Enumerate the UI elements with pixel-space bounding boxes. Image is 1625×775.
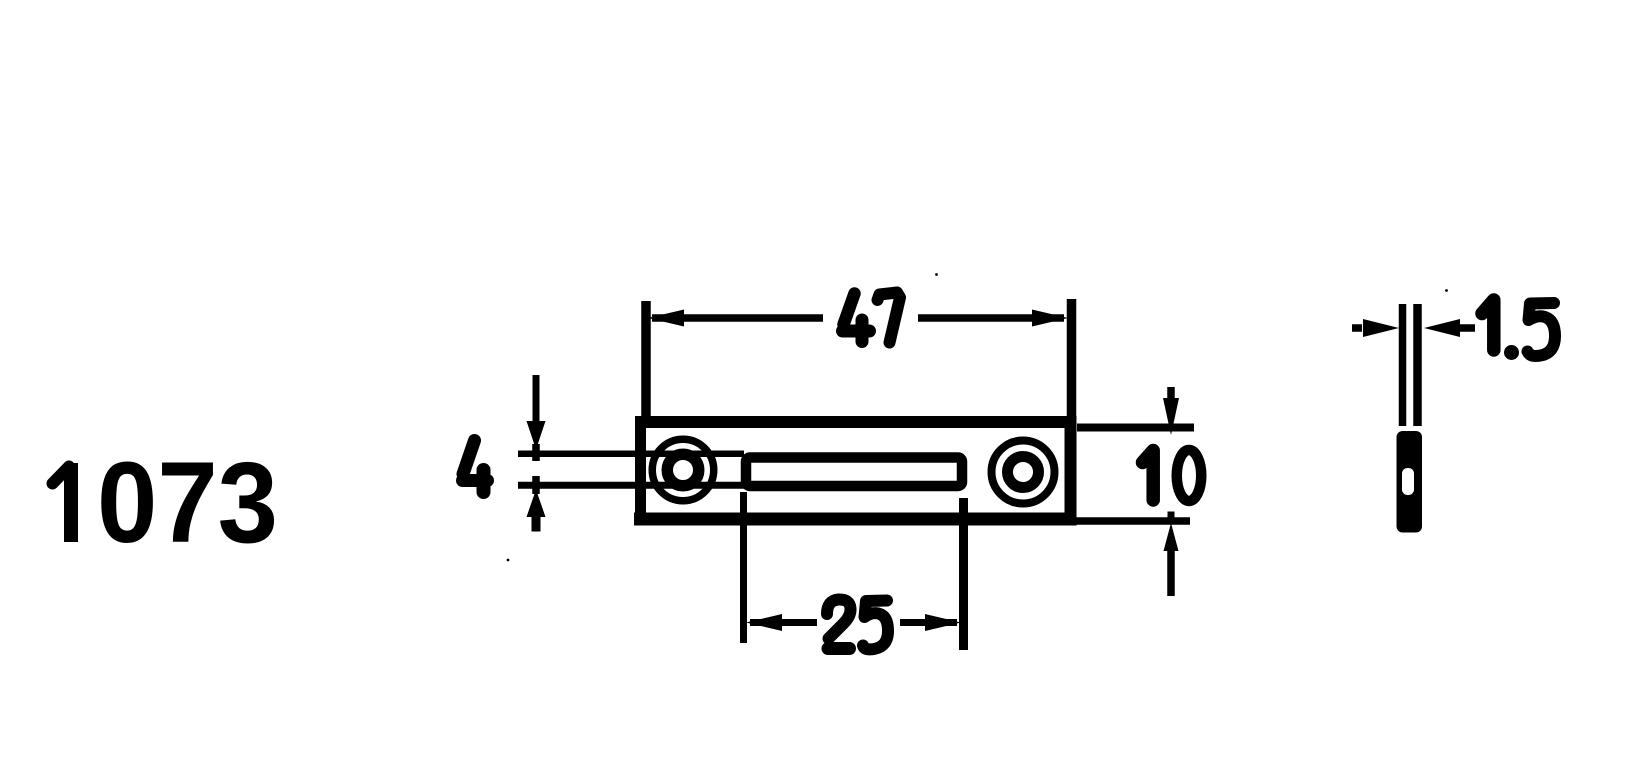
svg-text:073: 073	[97, 439, 278, 567]
